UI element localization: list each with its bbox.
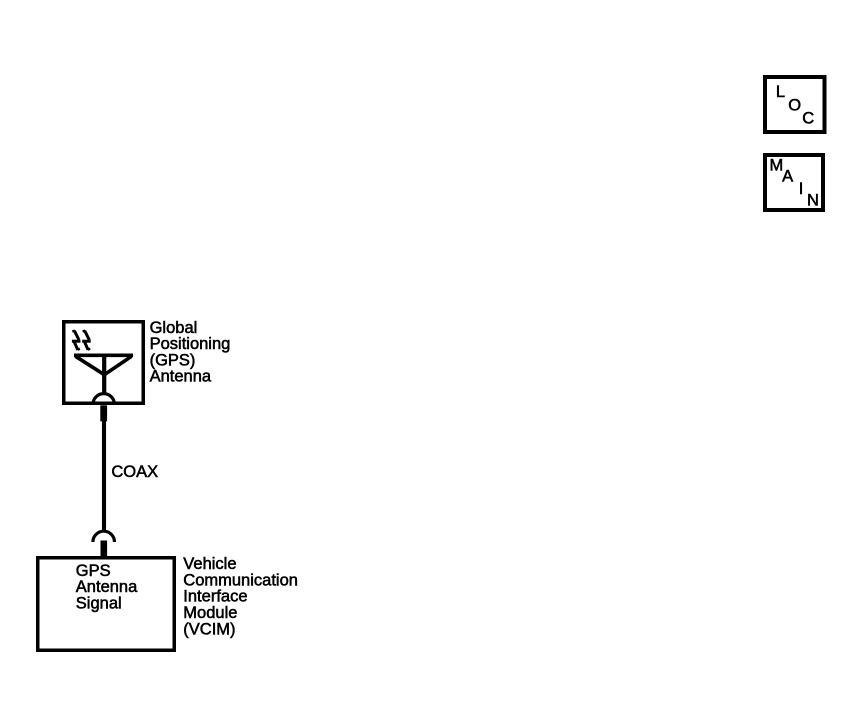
svg-text:I: I (799, 180, 804, 198)
label Global Positioning (GPS) Antenna (150, 319, 231, 386)
RF signal bolt 2 (82, 331, 91, 350)
antenna symbol (74, 355, 133, 394)
connector box LOC (765, 77, 825, 132)
GPS antenna box (64, 322, 144, 404)
svg-text:N: N (807, 192, 819, 210)
svg-text:C: C (802, 110, 814, 128)
RF signal bolt 1 (72, 331, 81, 350)
svg-text:A: A (782, 168, 793, 186)
svg-text:Vehicle: Vehicle (183, 555, 236, 573)
svg-text:Interface: Interface (183, 588, 247, 606)
svg-text:O: O (788, 96, 801, 114)
wire stub into VCIM box (101, 541, 108, 558)
wire stub below antenna box (100, 405, 107, 421)
label GPS Antenna Signal (76, 562, 138, 613)
svg-text:Antenna: Antenna (76, 578, 138, 596)
inline connector arc at VCIM (93, 531, 115, 542)
VCIM box (38, 558, 175, 651)
coax wire (102, 420, 106, 531)
svg-text:Module: Module (183, 604, 237, 622)
svg-text:COAX: COAX (111, 463, 158, 481)
svg-text:Positioning: Positioning (150, 335, 231, 353)
antenna connector arc (93, 394, 114, 405)
label Vehicle Communication Interface Module (VCIM) (183, 555, 298, 638)
svg-text:(VCIM): (VCIM) (183, 620, 235, 638)
svg-text:Communication: Communication (183, 571, 298, 589)
svg-text:(GPS): (GPS) (150, 351, 196, 369)
svg-text:Antenna: Antenna (150, 368, 212, 386)
connector box MAIN (765, 155, 823, 210)
svg-text:L: L (776, 83, 785, 101)
svg-text:Signal: Signal (76, 595, 122, 613)
svg-text:Global: Global (150, 319, 198, 337)
svg-text:GPS: GPS (76, 562, 111, 580)
